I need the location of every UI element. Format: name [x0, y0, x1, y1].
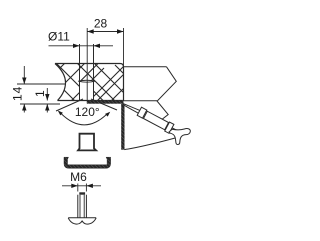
svg-text:120°: 120° [75, 105, 100, 119]
svg-text:Ø11: Ø11 [48, 30, 70, 44]
svg-text:1: 1 [33, 90, 47, 97]
svg-text:M6: M6 [70, 170, 87, 184]
svg-text:14: 14 [11, 86, 25, 101]
svg-text:28: 28 [94, 17, 108, 31]
